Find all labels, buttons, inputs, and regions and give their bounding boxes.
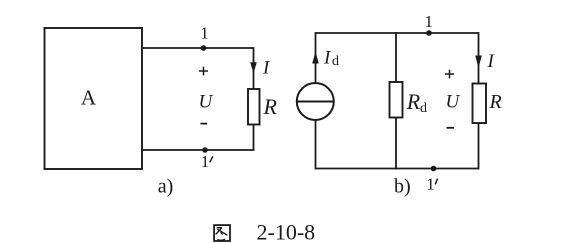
label - polarity (b) bbox=[447, 127, 455, 129]
current arrow I (a) bbox=[250, 62, 257, 73]
svg-text:1: 1 bbox=[426, 175, 435, 194]
node 1' (b) junction dot bbox=[431, 166, 437, 172]
caption hanzi TU (drawn) bbox=[214, 225, 230, 241]
wire bottom (box A to corner) bbox=[142, 149, 254, 151]
svg-text:1: 1 bbox=[424, 12, 433, 31]
label - polarity (a) bbox=[201, 123, 208, 125]
current source bar bbox=[297, 101, 333, 103]
svg-text:1: 1 bbox=[200, 24, 209, 43]
node 1 (b) junction dot bbox=[426, 30, 432, 36]
wire top (box A to corner) bbox=[142, 47, 254, 49]
label + polarity (a) bbox=[199, 67, 208, 76]
wire left branch upper (b) bbox=[315, 32, 317, 83]
svg-text:R: R bbox=[263, 94, 278, 119]
wire right branch upper (b) bbox=[478, 32, 480, 83]
svg-text:R: R bbox=[489, 91, 502, 113]
svg-text:A: A bbox=[81, 85, 97, 109]
wire middle branch lower (b) bbox=[395, 118, 397, 170]
current arrow Id (up) bbox=[312, 52, 319, 64]
label + polarity (b) bbox=[445, 70, 454, 79]
prime mark of 1' (b) bbox=[435, 179, 437, 185]
node 1' (a) junction dot bbox=[202, 147, 208, 153]
svg-text:R: R bbox=[406, 89, 421, 114]
network box A bbox=[45, 28, 143, 169]
wire right vertical lower bbox=[253, 125, 255, 151]
current arrow I (b, down) bbox=[475, 56, 482, 69]
current source Id circle bbox=[297, 83, 334, 120]
svg-text:U: U bbox=[446, 92, 461, 113]
node 1 (a) junction dot bbox=[201, 45, 207, 51]
wire top (b) bbox=[316, 32, 479, 34]
wire bottom (b) bbox=[316, 168, 479, 170]
resistor Rd bbox=[390, 82, 403, 118]
resistor R (b) bbox=[473, 84, 487, 124]
resistor R (a) bbox=[248, 89, 260, 125]
svg-text:U: U bbox=[199, 91, 214, 112]
svg-text:d: d bbox=[420, 101, 427, 116]
wire right branch lower (b) bbox=[478, 123, 480, 169]
svg-text:b): b) bbox=[394, 176, 411, 198]
wire right vertical upper bbox=[253, 47, 255, 89]
svg-text:1: 1 bbox=[201, 152, 210, 171]
svg-text:2-10-8: 2-10-8 bbox=[257, 220, 316, 243]
svg-text:d: d bbox=[332, 54, 339, 69]
wire middle branch upper (b) bbox=[395, 32, 397, 82]
wire left branch lower (b) bbox=[315, 120, 317, 169]
prime mark of 1' (a) bbox=[210, 156, 213, 162]
svg-text:a): a) bbox=[158, 176, 174, 198]
